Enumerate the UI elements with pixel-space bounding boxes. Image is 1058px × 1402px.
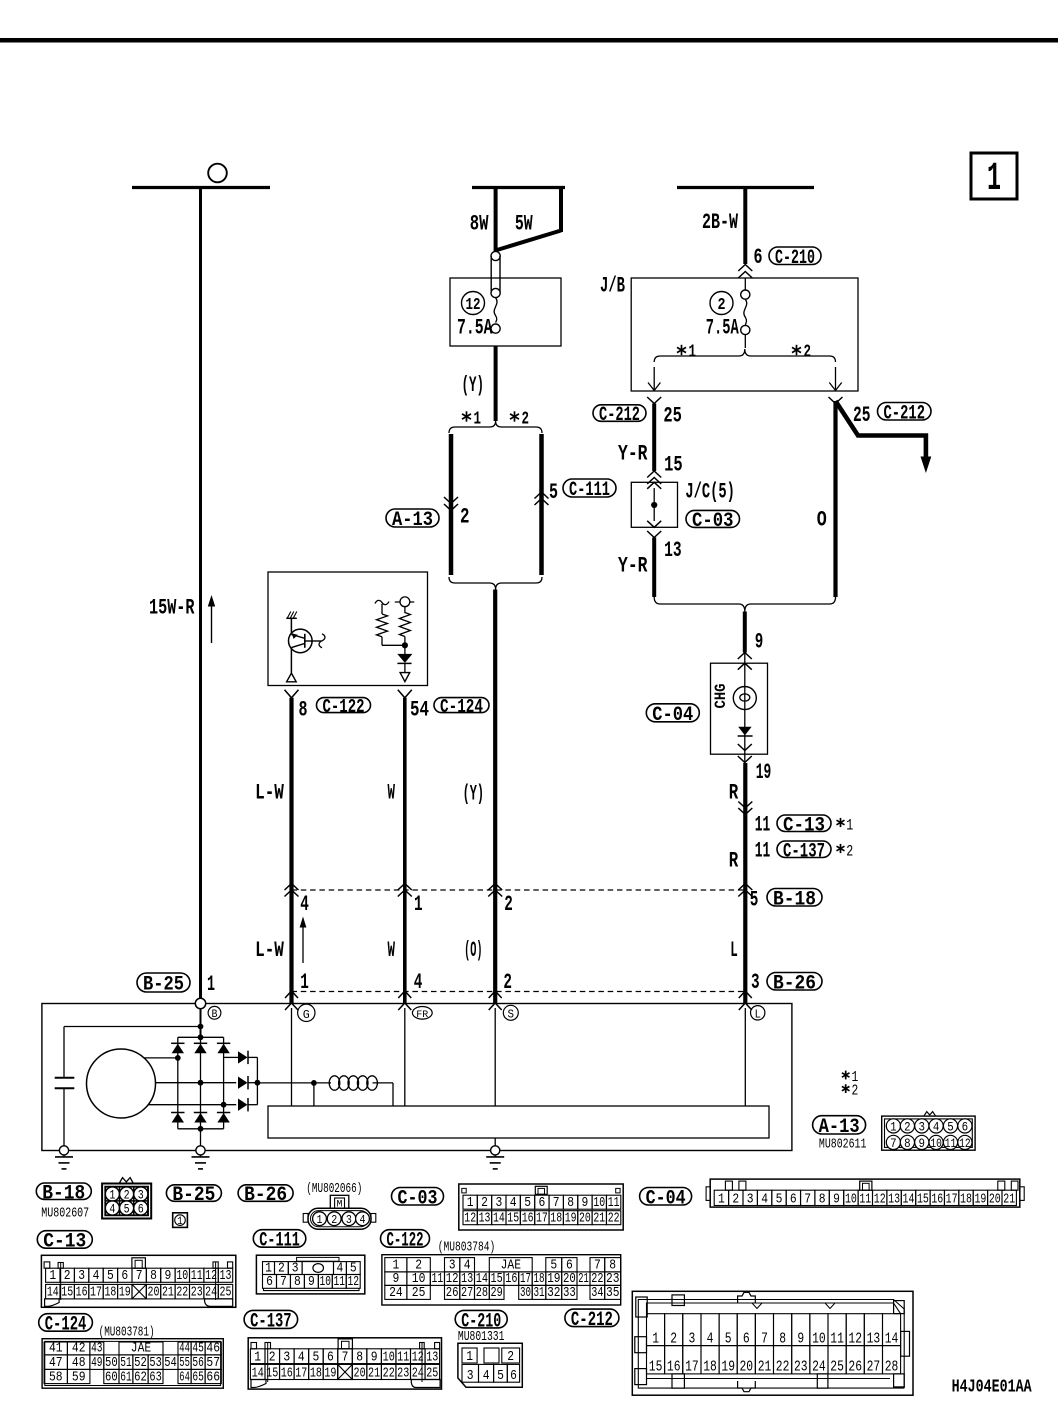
connector C-210 label bottom — [455, 1310, 507, 1333]
svg-text:23: 23 — [191, 1285, 203, 1301]
svg-text:C-122: C-122 — [323, 696, 365, 718]
diode in meter — [738, 727, 753, 736]
label (Y) — [462, 373, 485, 398]
thin lead through lamp — [744, 653, 746, 764]
svg-text:59: 59 — [72, 1370, 86, 1385]
trio diode mid — [238, 1076, 257, 1089]
svg-text:16: 16 — [281, 1365, 293, 1381]
connector symbol below J/B left — [647, 397, 661, 404]
capacitor branch wire — [64, 1027, 201, 1078]
wire L-W — [289, 698, 293, 1004]
wire FR internal — [404, 1008, 406, 1106]
svg-text:2B-W: 2B-W — [702, 210, 739, 235]
connector symbol into J/B — [738, 265, 752, 279]
stator winding circle — [87, 1049, 156, 1118]
svg-text:60: 60 — [105, 1370, 118, 1385]
svg-text:C-04: C-04 — [652, 704, 693, 727]
connector C-13 label bottom — [37, 1231, 92, 1254]
svg-text:12: 12 — [959, 1137, 971, 1151]
svg-text:20: 20 — [148, 1285, 160, 1301]
alternator box — [42, 1004, 792, 1151]
wire R to alternator — [743, 763, 747, 1004]
svg-text:35: 35 — [606, 1286, 620, 1301]
svg-text:14: 14 — [493, 1212, 505, 1227]
connector C-03 pinout — [459, 1184, 623, 1230]
connector C-111 label — [563, 479, 616, 502]
J/C junction dot — [651, 488, 657, 521]
direction arrow up small — [300, 917, 307, 964]
svg-text:5: 5 — [776, 1192, 783, 1207]
svg-text:5: 5 — [107, 1268, 114, 1284]
svg-text:22: 22 — [776, 1360, 790, 1376]
svg-text:4: 4 — [761, 1192, 768, 1207]
split brace bottom — [449, 577, 542, 590]
svg-text:64: 64 — [179, 1370, 190, 1385]
svg-text:12: 12 — [848, 1331, 862, 1347]
connector C-124 label — [434, 696, 489, 718]
svg-text:17: 17 — [295, 1365, 307, 1381]
ground at capacitor — [55, 1146, 73, 1169]
svg-text:2: 2 — [522, 410, 530, 430]
svg-text:B-26: B-26 — [773, 973, 816, 996]
svg-text:C-137: C-137 — [783, 841, 825, 864]
wire battery bus — [132, 186, 270, 189]
svg-text:25: 25 — [412, 1286, 426, 1301]
connector A-13 label — [386, 509, 439, 532]
svg-text:31: 31 — [533, 1286, 544, 1301]
svg-text:15: 15 — [649, 1360, 663, 1376]
svg-text:10: 10 — [812, 1331, 826, 1347]
svg-text:3: 3 — [346, 1213, 352, 1227]
svg-text:(O): (O) — [464, 938, 482, 963]
svg-text:21: 21 — [162, 1285, 174, 1301]
chevron below J/C — [647, 531, 661, 538]
connector C-03 label — [686, 510, 740, 533]
svg-text:8: 8 — [819, 1192, 826, 1207]
wire to other page via C-212 — [836, 401, 932, 473]
svg-text:32: 32 — [547, 1286, 560, 1301]
svg-text:16: 16 — [667, 1360, 681, 1376]
svg-text:2: 2 — [804, 343, 812, 363]
svg-text:28: 28 — [885, 1360, 899, 1376]
svg-text:FR: FR — [416, 1009, 429, 1021]
svg-text:1: 1 — [467, 1196, 474, 1211]
svg-text:21: 21 — [368, 1365, 380, 1381]
svg-text:M: M — [337, 1199, 343, 1211]
wire branch *1 via A-13 — [449, 434, 454, 575]
svg-text:C-04: C-04 — [646, 1188, 686, 1211]
connector symbol below J/B right — [829, 397, 843, 404]
svg-text:B: B — [212, 1009, 218, 1021]
connector B-26 label bottom — [238, 1184, 293, 1207]
svg-text:4: 4 — [93, 1268, 100, 1284]
connector C-122 label bottom — [381, 1230, 430, 1253]
star notes 1 and 2 — [842, 1069, 858, 1086]
svg-text:24: 24 — [812, 1360, 826, 1376]
svg-text:(Y): (Y) — [463, 782, 484, 807]
svg-text:18: 18 — [550, 1212, 562, 1227]
svg-text:3: 3 — [78, 1268, 85, 1284]
svg-text:1: 1 — [317, 1213, 323, 1227]
svg-text:1: 1 — [987, 157, 1001, 202]
connector B-26 label — [767, 973, 822, 996]
svg-text:4: 4 — [707, 1331, 714, 1347]
svg-text:19: 19 — [119, 1285, 131, 1301]
svg-text:15: 15 — [917, 1192, 929, 1207]
svg-text:3: 3 — [751, 970, 760, 995]
pin labels below B-18 line — [300, 888, 758, 918]
svg-text:L-W: L-W — [255, 781, 284, 806]
svg-text:2: 2 — [64, 1268, 71, 1284]
pin 11 C-13 row — [755, 813, 854, 838]
wire 2B-W — [743, 186, 747, 264]
svg-text:B-26: B-26 — [244, 1184, 287, 1207]
chevron at C-04 top — [738, 663, 752, 670]
svg-text:1: 1 — [414, 892, 423, 917]
svg-text:4: 4 — [510, 1196, 517, 1211]
svg-text:6: 6 — [962, 1120, 969, 1134]
svg-text:8: 8 — [779, 1331, 786, 1347]
svg-text:8: 8 — [356, 1349, 363, 1365]
svg-text:4: 4 — [360, 1213, 366, 1227]
svg-text:8W: 8W — [470, 212, 489, 237]
svg-text:33: 33 — [563, 1286, 576, 1301]
svg-text:(Y): (Y) — [462, 373, 485, 398]
svg-text:29: 29 — [491, 1286, 503, 1301]
svg-text:24: 24 — [389, 1286, 403, 1301]
fuse 2 rating 7.5A — [706, 316, 739, 341]
svg-text:18: 18 — [960, 1192, 972, 1207]
pin 54 label — [410, 698, 429, 723]
svg-text:5: 5 — [524, 1196, 531, 1211]
svg-text:3: 3 — [689, 1331, 696, 1347]
svg-text:24: 24 — [205, 1285, 217, 1301]
rectifier diodes top row — [171, 1043, 230, 1053]
svg-text:5: 5 — [750, 888, 759, 913]
svg-text:13: 13 — [664, 538, 682, 563]
svg-text:11: 11 — [432, 1272, 444, 1287]
svg-text:3: 3 — [919, 1120, 926, 1134]
chevrons at B-26 line — [285, 991, 752, 998]
svg-text:1: 1 — [846, 817, 853, 835]
svg-text:2: 2 — [460, 505, 470, 530]
terminal G label — [298, 1004, 315, 1022]
svg-text:27: 27 — [867, 1360, 881, 1376]
pin 13 label — [664, 538, 682, 563]
rotor feed line — [257, 1080, 331, 1106]
pin 25 label left — [663, 404, 682, 429]
svg-text:Y-R: Y-R — [618, 442, 648, 467]
svg-text:54: 54 — [164, 1356, 177, 1371]
svg-text:4: 4 — [300, 892, 309, 917]
wire G internal — [291, 1008, 293, 1106]
pin 6 label C-210 — [754, 245, 763, 270]
svg-text:11: 11 — [397, 1349, 409, 1365]
svg-text:13: 13 — [426, 1349, 438, 1365]
svg-text:9: 9 — [308, 1275, 315, 1290]
svg-text:8: 8 — [299, 698, 308, 723]
svg-text:15W-R: 15W-R — [149, 596, 195, 621]
svg-text:B-18: B-18 — [42, 1183, 85, 1206]
svg-text:7: 7 — [136, 1268, 143, 1284]
wire (Y) to S terminal — [493, 590, 497, 1004]
label MU801331 — [458, 1329, 505, 1345]
wire S internal — [494, 1008, 496, 1106]
svg-text:7: 7 — [342, 1349, 349, 1365]
svg-text:16: 16 — [931, 1192, 943, 1207]
svg-text:12: 12 — [412, 1349, 424, 1365]
svg-text:11: 11 — [830, 1331, 844, 1347]
svg-text:25: 25 — [830, 1360, 844, 1376]
connector C-122 label — [317, 696, 371, 718]
svg-text:4: 4 — [483, 1369, 490, 1384]
svg-text:1: 1 — [254, 1349, 261, 1365]
svg-text:C-124: C-124 — [45, 1314, 87, 1337]
fuse 12 box — [450, 278, 561, 346]
svg-text:17: 17 — [90, 1285, 102, 1301]
svg-text:9: 9 — [165, 1268, 172, 1284]
connector C-124 label bottom — [39, 1314, 93, 1337]
svg-text:C-212: C-212 — [599, 404, 640, 427]
fuse 2 circled number — [710, 292, 733, 316]
svg-text:L: L — [754, 1008, 761, 1022]
svg-text:19: 19 — [974, 1192, 986, 1207]
merge brace above CHG — [654, 597, 835, 612]
svg-text:13: 13 — [888, 1192, 900, 1207]
svg-text:20: 20 — [740, 1360, 754, 1376]
label R lower — [729, 849, 739, 874]
svg-text:58: 58 — [49, 1370, 63, 1385]
svg-text:20: 20 — [354, 1365, 366, 1381]
wire into CHG lamp — [743, 612, 747, 653]
svg-text:8: 8 — [904, 1137, 911, 1151]
svg-text:5: 5 — [549, 480, 558, 505]
connector C-04 label — [646, 704, 699, 727]
svg-text:1: 1 — [474, 410, 482, 430]
pin labels above B-26 line — [300, 970, 759, 995]
label (O) lower — [464, 938, 482, 963]
svg-text:2: 2 — [481, 1196, 488, 1211]
svg-text:9: 9 — [755, 630, 764, 655]
connector C-124 pinout — [42, 1339, 223, 1389]
dashed line B-26 — [292, 991, 746, 993]
svg-text:66: 66 — [206, 1370, 220, 1385]
svg-text:3: 3 — [283, 1349, 290, 1365]
svg-text:49: 49 — [91, 1356, 102, 1371]
svg-text:19: 19 — [756, 760, 772, 785]
svg-text:9: 9 — [919, 1137, 926, 1151]
svg-text:13: 13 — [220, 1268, 232, 1284]
svg-text:6: 6 — [790, 1192, 797, 1207]
wire Y-R lower — [652, 538, 656, 598]
svg-text:30: 30 — [520, 1286, 531, 1301]
wire ignition bus — [472, 186, 565, 189]
svg-text:2: 2 — [732, 1192, 739, 1207]
svg-text:1: 1 — [652, 1331, 659, 1347]
connector C-212 label left — [593, 404, 646, 427]
svg-text:7.5A: 7.5A — [457, 316, 493, 341]
connector C-137 label bottom — [244, 1310, 298, 1333]
svg-text:W: W — [388, 938, 396, 963]
label 5W — [515, 212, 533, 237]
svg-text:23: 23 — [794, 1360, 808, 1376]
svg-text:10: 10 — [930, 1137, 942, 1151]
svg-text:O: O — [817, 508, 827, 533]
svg-text:6: 6 — [539, 1196, 546, 1211]
svg-text:20: 20 — [989, 1192, 1001, 1207]
svg-text:16: 16 — [505, 1272, 517, 1287]
svg-text:J/C(5): J/C(5) — [685, 480, 735, 505]
svg-text:C-13: C-13 — [43, 1231, 86, 1254]
svg-text:6: 6 — [754, 245, 763, 270]
connector C-04 label bottom — [640, 1188, 692, 1211]
trio diode top — [224, 1051, 258, 1064]
svg-text:8: 8 — [294, 1275, 301, 1290]
svg-text:2: 2 — [269, 1349, 276, 1365]
svg-text:7: 7 — [804, 1192, 811, 1207]
capacitor C1 — [55, 1078, 75, 1151]
svg-text:G: G — [303, 1008, 310, 1022]
svg-text:18: 18 — [104, 1285, 116, 1301]
svg-text:C-210: C-210 — [775, 247, 815, 270]
svg-text:63: 63 — [149, 1370, 161, 1385]
svg-text:W: W — [388, 781, 396, 806]
label 8W — [470, 212, 489, 237]
wire 5W — [497, 186, 561, 250]
terminal B label — [208, 1006, 221, 1021]
rectifier diodes bottom row — [171, 1113, 230, 1123]
fusible link 12 holder — [491, 251, 500, 333]
svg-text:11: 11 — [191, 1268, 203, 1284]
label W upper — [388, 781, 396, 806]
label L-W lower — [255, 938, 284, 963]
svg-text:9: 9 — [833, 1192, 840, 1207]
svg-text:6: 6 — [266, 1275, 273, 1290]
svg-text:7: 7 — [890, 1137, 897, 1151]
svg-text:25: 25 — [220, 1285, 232, 1301]
svg-text:4: 4 — [298, 1349, 305, 1365]
svg-text:3: 3 — [467, 1369, 474, 1384]
label Y-R upper — [618, 442, 648, 467]
label L lower — [730, 938, 738, 963]
wire W — [403, 698, 407, 1004]
svg-text:16: 16 — [76, 1285, 88, 1301]
fuse number 12 circled — [462, 292, 485, 316]
terminal S label — [503, 1005, 518, 1021]
svg-text:22: 22 — [608, 1212, 620, 1227]
svg-text:11: 11 — [334, 1275, 346, 1290]
svg-text:19: 19 — [565, 1212, 577, 1227]
svg-text:(MU803784): (MU803784) — [438, 1241, 496, 1256]
connector B-18 pinout — [102, 1178, 151, 1219]
svg-text:26: 26 — [848, 1360, 862, 1376]
svg-text:2: 2 — [718, 296, 726, 315]
connector symbol on A-13 wire — [444, 497, 458, 511]
connector arrow pin 54 — [398, 690, 412, 698]
svg-text:7.5A: 7.5A — [706, 316, 739, 341]
pin 11 C-137 row — [755, 839, 854, 864]
svg-text:L: L — [730, 938, 738, 963]
connector arrow pin 8 — [285, 690, 299, 698]
svg-text:MU802607: MU802607 — [41, 1206, 89, 1222]
svg-text:65: 65 — [192, 1370, 204, 1385]
wire 8W — [494, 186, 498, 252]
svg-text:MU802611: MU802611 — [819, 1137, 867, 1153]
svg-text:1: 1 — [718, 1192, 725, 1207]
wire B internal — [198, 1009, 204, 1038]
svg-text:25: 25 — [663, 404, 682, 429]
chevron below C-04 — [738, 756, 752, 763]
svg-text:21: 21 — [1003, 1192, 1015, 1207]
svg-text:6: 6 — [327, 1349, 334, 1365]
svg-text:10: 10 — [593, 1196, 605, 1211]
pin 8 label — [299, 698, 308, 723]
svg-text:21: 21 — [578, 1272, 589, 1287]
svg-text:B-25: B-25 — [143, 974, 184, 997]
connector B-26 pinout — [303, 1195, 376, 1229]
svg-text:5: 5 — [124, 1203, 130, 1217]
pin 25 label right — [853, 403, 871, 428]
split brace top — [449, 421, 542, 433]
svg-text:12: 12 — [205, 1268, 217, 1284]
svg-text:15: 15 — [266, 1365, 278, 1381]
svg-text:A-13: A-13 — [392, 509, 433, 532]
svg-text:3: 3 — [496, 1196, 503, 1211]
svg-text:11: 11 — [608, 1196, 620, 1211]
svg-text:5: 5 — [497, 1369, 504, 1384]
label CHG rotated — [712, 684, 730, 709]
svg-text:25: 25 — [853, 403, 871, 428]
svg-text:22: 22 — [176, 1285, 188, 1301]
svg-text:1: 1 — [890, 1120, 897, 1134]
svg-text:R: R — [729, 781, 739, 806]
svg-text:17: 17 — [536, 1212, 548, 1227]
svg-text:2: 2 — [507, 1350, 514, 1365]
svg-text:12: 12 — [464, 1212, 476, 1227]
page top rule — [0, 38, 1058, 43]
connector C-111 label bottom — [253, 1230, 305, 1253]
svg-text:28: 28 — [476, 1286, 488, 1301]
svg-text:7: 7 — [280, 1275, 287, 1290]
svg-text:12: 12 — [874, 1192, 886, 1207]
regulator IC bar — [268, 1106, 769, 1138]
svg-text:9: 9 — [371, 1349, 378, 1365]
junction block J/B box — [631, 278, 858, 391]
zener diode D1 — [397, 645, 412, 681]
svg-text:6: 6 — [743, 1331, 750, 1347]
charge warning lamp — [733, 687, 756, 710]
connector B-18 label — [767, 889, 822, 912]
pin 2 label A-13 — [460, 505, 470, 530]
label MU802066 — [306, 1182, 362, 1197]
svg-text:19: 19 — [324, 1365, 336, 1381]
svg-text:C-124: C-124 — [440, 696, 483, 718]
svg-text:6: 6 — [510, 1369, 517, 1384]
connector C-212 pinout — [632, 1291, 913, 1395]
svg-text:18: 18 — [310, 1365, 322, 1381]
connector C-111 pinout — [256, 1255, 364, 1294]
svg-text:14: 14 — [885, 1331, 899, 1347]
connector C-212 label right — [878, 402, 932, 425]
connector C-210 pinout — [458, 1343, 522, 1387]
star note 1 above left wire — [462, 410, 481, 430]
label Y-R lower — [618, 554, 648, 579]
dashed line B-18 — [292, 889, 746, 891]
connector A-13 label bottom — [813, 1116, 866, 1139]
wire branch *2 via C-111 — [539, 434, 544, 575]
svg-text:20: 20 — [579, 1212, 591, 1227]
svg-text:C-111: C-111 — [569, 479, 610, 502]
